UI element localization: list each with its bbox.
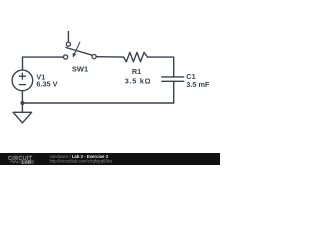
voltage source V1 minus sign	[19, 84, 26, 86]
switch SW1 top throw stub	[67, 32, 69, 42]
footer CircuitLab logo zigzag	[10, 161, 20, 163]
switch SW1 actuator arrowhead	[73, 53, 76, 58]
voltage source V1 plus sign	[19, 73, 26, 80]
svg-text:LAB: LAB	[22, 159, 31, 164]
voltage source V1 circle	[12, 70, 33, 91]
wire bottom net	[22, 102, 173, 104]
wire R1 to C1 top	[148, 57, 174, 77]
svg-text:SW1: SW1	[72, 64, 88, 73]
ground symbol	[13, 103, 31, 123]
svg-text:3.5 kΩ: 3.5 kΩ	[125, 76, 152, 85]
svg-text:R1: R1	[132, 67, 141, 76]
wire C1 bottom leg	[173, 81, 175, 103]
footer CircuitLab logo word LAB	[20, 160, 34, 164]
switch SW1 terminal circle right	[92, 55, 96, 59]
svg-text:3.5 mF: 3.5 mF	[186, 80, 210, 89]
resistor R1 zigzag	[124, 52, 148, 61]
wire SW1 right throw to R1	[96, 56, 123, 58]
wire V1 bottom to node	[21, 91, 23, 103]
switch SW1 lever	[66, 48, 92, 56]
capacitor C1 top plate	[161, 76, 184, 78]
svg-text:6.35 V: 6.35 V	[36, 80, 57, 89]
capacitor C1 bottom plate	[161, 80, 184, 82]
footer bar	[0, 153, 220, 165]
wire top-left from V1 to SW1 common	[23, 57, 64, 70]
svg-text:http://circuitlab.com/c/rgfqyq: http://circuitlab.com/c/rgfqyq69ku	[50, 158, 113, 163]
switch SW1 terminal circle top	[66, 42, 70, 46]
switch SW1 terminal circle left	[64, 55, 68, 59]
switch SW1 actuator arrow shaft	[75, 42, 80, 53]
node junction dot	[20, 101, 24, 105]
